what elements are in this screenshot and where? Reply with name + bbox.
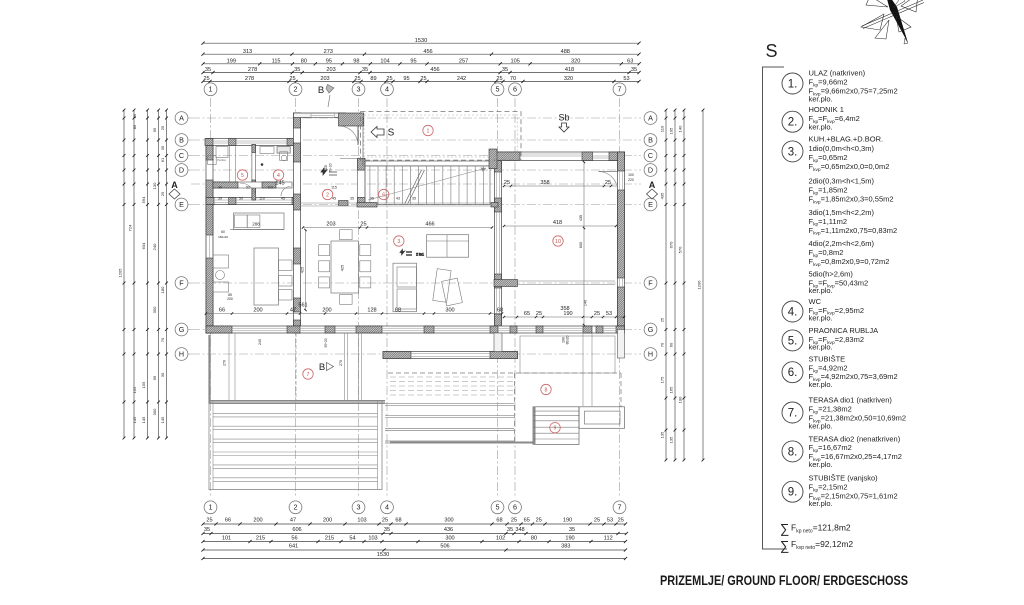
svg-text:600: 600 — [579, 242, 583, 248]
svg-text:9: 9 — [554, 426, 557, 432]
svg-text:86: 86 — [132, 124, 137, 129]
right dimension chains — [660, 109, 705, 462]
svg-text:140: 140 — [584, 300, 588, 306]
svg-text:54: 54 — [349, 536, 355, 542]
interior dim row A-A room 10 — [503, 180, 616, 187]
svg-text:E: E — [648, 200, 653, 209]
svg-text:35: 35 — [294, 67, 300, 73]
svg-text:ker.plo.: ker.plo. — [809, 314, 833, 323]
svg-text:3: 3 — [397, 239, 400, 245]
svg-text:35: 35 — [631, 67, 637, 73]
svg-text:200: 200 — [322, 307, 331, 313]
svg-text:2: 2 — [326, 193, 329, 199]
svg-text:5dio(h>2,6m): 5dio(h>2,6m) — [809, 270, 854, 279]
svg-text:25: 25 — [594, 311, 600, 317]
svg-text:F: F — [179, 278, 184, 287]
section marker A right — [647, 180, 658, 199]
svg-text:95: 95 — [326, 58, 332, 64]
svg-text:35: 35 — [362, 67, 368, 73]
svg-text:270: 270 — [223, 360, 227, 366]
top dimension chains — [201, 38, 640, 83]
svg-text:4: 4 — [277, 173, 280, 179]
svg-text:ker.plo.: ker.plo. — [809, 343, 833, 352]
left dimension chains — [118, 109, 168, 440]
svg-text:3dio(1,5m<h<2,2m): 3dio(1,5m<h<2,2m) — [809, 208, 875, 217]
svg-text:110: 110 — [660, 125, 665, 132]
electrical symbols — [321, 168, 424, 257]
room number 9 — [550, 423, 560, 433]
svg-text:B: B — [648, 135, 653, 144]
svg-text:25: 25 — [382, 518, 388, 524]
compass rose — [861, 0, 924, 44]
svg-text:1: 1 — [209, 85, 213, 94]
svg-text:103: 103 — [357, 518, 366, 524]
hall west wall (column 2) — [294, 113, 301, 333]
entry block wall — [339, 113, 364, 126]
kitchen island — [254, 248, 292, 305]
svg-text:418: 418 — [553, 220, 562, 226]
svg-text:165: 165 — [669, 386, 674, 393]
entrance arrow S — [371, 127, 395, 139]
svg-text:61: 61 — [160, 157, 165, 162]
hatch on E row at hall — [339, 201, 349, 206]
south wall row G — [206, 326, 625, 333]
svg-text:4.: 4. — [788, 307, 798, 319]
interior vertical dim dining — [300, 229, 345, 311]
svg-text:H: H — [648, 349, 653, 358]
svg-text:D: D — [648, 165, 653, 174]
svg-text:215: 215 — [325, 536, 334, 542]
grid bubbles top — [204, 83, 626, 96]
svg-text:53: 53 — [606, 311, 612, 317]
svg-text:288: 288 — [252, 221, 260, 226]
svg-text:320: 320 — [571, 58, 580, 64]
svg-text:436: 436 — [444, 527, 453, 533]
grid column lines 1-7 — [211, 98, 620, 498]
svg-text:86: 86 — [132, 113, 137, 118]
svg-text:6.: 6. — [788, 367, 798, 379]
svg-text:1: 1 — [209, 503, 213, 512]
svg-text:STUBIŠTE (vanjsko): STUBIŠTE (vanjsko) — [809, 474, 879, 483]
room number 4 — [273, 170, 283, 180]
svg-text:35: 35 — [507, 527, 513, 533]
section marker B bottom — [319, 362, 334, 373]
svg-text:300: 300 — [152, 408, 157, 415]
grid bubbles bottom — [204, 501, 626, 514]
svg-text:STUBIŠTE: STUBIŠTE — [809, 355, 846, 364]
wall between hall and stairs — [358, 159, 366, 206]
svg-text:300: 300 — [445, 307, 454, 313]
svg-text:S: S — [388, 128, 395, 139]
svg-text:348: 348 — [515, 527, 524, 533]
exterior wall west (left rooms block) — [206, 139, 213, 334]
svg-text:PRIZEMLJE/ GROUND FLOOR/ ERDGE: PRIZEMLJE/ GROUND FLOOR/ ERDGESCHOSS — [660, 572, 908, 588]
svg-text:6: 6 — [382, 193, 385, 199]
svg-text:68: 68 — [395, 518, 401, 524]
section marker B top — [318, 85, 334, 108]
svg-text:1530: 1530 — [377, 552, 389, 558]
svg-text:Fkvp neto=92,12m2: Fkvp neto=92,12m2 — [791, 539, 853, 551]
legend entry 5. — [782, 326, 878, 352]
svg-text:506: 506 — [440, 544, 449, 550]
svg-text:65: 65 — [524, 311, 530, 317]
svg-text:25: 25 — [160, 191, 165, 196]
svg-text:ULAZ (natkriven): ULAZ (natkriven) — [809, 69, 866, 78]
top wall of rooms 4/5 — [205, 139, 300, 146]
svg-text:A: A — [648, 113, 653, 122]
svg-text:278: 278 — [245, 76, 254, 82]
svg-text:4dio(2,2m<h<2,6m): 4dio(2,2m<h<2,6m) — [809, 239, 875, 248]
svg-text:2 3x1: 2 3x1 — [416, 253, 424, 257]
svg-text:9.: 9. — [788, 487, 798, 499]
svg-text:594: 594 — [141, 196, 146, 203]
divider wall rooms 5/4 — [252, 145, 256, 201]
svg-text:313: 313 — [243, 49, 252, 55]
svg-text:634: 634 — [141, 242, 146, 249]
svg-text:8: 8 — [545, 388, 548, 394]
svg-text:43: 43 — [396, 197, 400, 201]
svg-text:95: 95 — [152, 127, 157, 132]
svg-text:240: 240 — [258, 339, 262, 345]
svg-text:53: 53 — [623, 76, 629, 82]
svg-text:160x20: 160x20 — [218, 235, 228, 239]
svg-text:25: 25 — [660, 317, 665, 322]
svg-text:135: 135 — [669, 436, 674, 443]
svg-text:ker.plo.: ker.plo. — [809, 123, 833, 132]
svg-text:190: 190 — [565, 536, 574, 542]
svg-text:50: 50 — [239, 197, 243, 201]
svg-text:200: 200 — [253, 307, 262, 313]
svg-text:3: 3 — [357, 85, 361, 94]
svg-text:105: 105 — [510, 58, 519, 64]
svg-text:145: 145 — [160, 416, 165, 423]
window in hall top wall — [311, 113, 334, 117]
svg-text:278: 278 — [248, 67, 257, 73]
svg-text:257: 257 — [459, 58, 468, 64]
svg-text:B: B — [319, 362, 325, 373]
entry east line — [340, 117, 363, 166]
svg-text:KUH.+BLAG.+D.BOR.: KUH.+BLAG.+D.BOR. — [809, 135, 884, 144]
svg-text:220: 220 — [628, 178, 634, 182]
svg-text:100: 100 — [678, 396, 683, 403]
svg-text:Fkvp=0,65m2x0,0=0,0m2: Fkvp=0,65m2x0,0=0,0m2 — [809, 162, 890, 173]
east wall — [618, 152, 625, 330]
svg-text:104: 104 — [380, 58, 389, 64]
svg-text:155: 155 — [132, 386, 137, 393]
svg-text:47: 47 — [290, 518, 296, 524]
legend entry 6. — [782, 355, 898, 390]
svg-text:418: 418 — [565, 67, 574, 73]
svg-text:215: 215 — [256, 536, 265, 542]
svg-text:39: 39 — [218, 197, 222, 201]
svg-text:Fkp neto=121,8m2: Fkp neto=121,8m2 — [791, 523, 851, 535]
svg-text:350: 350 — [152, 306, 157, 313]
svg-text:25: 25 — [289, 76, 295, 82]
grid bubbles left — [175, 112, 191, 361]
wall below rooms 4/5 interior — [213, 182, 292, 188]
svg-text:E: E — [179, 200, 184, 209]
svg-text:45: 45 — [332, 197, 336, 201]
interior dimension row living — [302, 221, 493, 228]
svg-text:25: 25 — [618, 518, 624, 524]
svg-text:10: 10 — [555, 239, 561, 245]
svg-text:1.: 1. — [788, 79, 798, 91]
svg-text:25: 25 — [160, 125, 165, 130]
svg-text:2.: 2. — [788, 117, 798, 129]
svg-text:101: 101 — [222, 536, 231, 542]
legend entry 1. — [782, 69, 898, 104]
svg-text:80x20: 80x20 — [566, 335, 570, 344]
svg-text:25: 25 — [594, 518, 600, 524]
wall row E below rooms 4/5 — [206, 198, 300, 205]
svg-text:70: 70 — [160, 337, 165, 342]
svg-text:Sb: Sb — [558, 113, 569, 123]
section marker A left — [169, 180, 180, 199]
svg-text:7.: 7. — [788, 408, 798, 420]
svg-text:60: 60 — [221, 230, 225, 234]
svg-text:TERASA dio2 (nenatkriven): TERASA dio2 (nenatkriven) — [809, 434, 901, 443]
svg-text:C: C — [179, 151, 184, 160]
svg-text:199: 199 — [227, 58, 236, 64]
svg-text:4: 4 — [385, 85, 389, 94]
svg-text:60: 60 — [669, 342, 674, 347]
svg-text:115: 115 — [272, 58, 281, 64]
svg-text:110: 110 — [259, 197, 265, 201]
stair landing wall — [489, 149, 497, 169]
svg-text:3: 3 — [357, 503, 361, 512]
svg-text:425: 425 — [300, 266, 305, 273]
closet partition room 5 — [230, 146, 236, 187]
svg-text:5: 5 — [241, 173, 244, 179]
svg-text:35: 35 — [204, 527, 210, 533]
svg-text:A: A — [171, 180, 178, 190]
svg-text:102: 102 — [496, 536, 505, 542]
svg-text:100: 100 — [628, 173, 634, 177]
svg-text:35: 35 — [384, 527, 390, 533]
svg-text:1530: 1530 — [415, 38, 427, 44]
svg-text:35: 35 — [350, 197, 354, 201]
svg-text:96: 96 — [152, 375, 157, 380]
svg-text:95+20: 95+20 — [324, 338, 328, 347]
svg-text:7: 7 — [618, 85, 622, 94]
legend entry 4. — [782, 297, 864, 323]
svg-text:39: 39 — [218, 186, 222, 190]
legend entry 9. — [782, 474, 898, 508]
legend entry 3. — [782, 135, 897, 296]
svg-text:488: 488 — [561, 49, 570, 55]
svg-text:Fkvp=1,11m2x0,75=0,83m2: Fkvp=1,11m2x0,75=0,83m2 — [809, 226, 898, 237]
svg-text:ker.plo.: ker.plo. — [809, 460, 833, 469]
dining table — [319, 230, 371, 305]
svg-text:25: 25 — [354, 76, 360, 82]
room 10 west wall — [495, 161, 502, 327]
svg-text:ker.plo.: ker.plo. — [809, 380, 833, 389]
svg-text:45: 45 — [281, 197, 285, 201]
svg-text:25: 25 — [420, 76, 426, 82]
svg-text:1: 1 — [427, 129, 430, 135]
svg-text:95: 95 — [370, 197, 374, 201]
grid row lines A-H — [191, 118, 641, 354]
svg-text:203: 203 — [320, 76, 329, 82]
entry door leaf and arc — [340, 126, 358, 145]
room number 2 — [322, 189, 332, 199]
svg-text:1dio(0,0m<h<0,3m): 1dio(0,0m<h<0,3m) — [809, 144, 875, 153]
tv sideboard — [393, 263, 417, 312]
svg-text:H: H — [179, 349, 184, 358]
svg-text:70+20: 70+20 — [329, 163, 333, 172]
interior dim row above wall G right — [503, 306, 625, 318]
svg-text:200: 200 — [253, 518, 262, 524]
svg-text:4: 4 — [385, 503, 389, 512]
room number 7 — [303, 369, 313, 379]
svg-text:TERASA dio1 (natkriven): TERASA dio1 (natkriven) — [809, 396, 893, 405]
svg-text:70: 70 — [660, 342, 665, 347]
svg-text:103: 103 — [368, 536, 377, 542]
svg-text:300: 300 — [444, 518, 453, 524]
legend entry 7. — [782, 396, 906, 431]
svg-text:53: 53 — [607, 518, 613, 524]
svg-text:95: 95 — [410, 58, 416, 64]
svg-text:105: 105 — [669, 127, 674, 134]
svg-text:35: 35 — [569, 527, 575, 533]
svg-text:Fkvp=1,85m2x0,3=0,55m2: Fkvp=1,85m2x0,3=0,55m2 — [809, 195, 894, 206]
svg-text:561: 561 — [298, 303, 307, 309]
svg-text:PRAONICA RUBLJA: PRAONICA RUBLJA — [809, 326, 879, 335]
svg-text:5: 5 — [496, 85, 500, 94]
svg-text:65: 65 — [524, 518, 530, 524]
terrace dio2 room 8 dashed area — [385, 373, 621, 444]
svg-text:B: B — [179, 135, 184, 144]
svg-text:358: 358 — [540, 180, 549, 186]
svg-text:435: 435 — [660, 192, 665, 199]
svg-text:2: 2 — [294, 503, 298, 512]
covered terrace edge (thick gray L) — [209, 335, 386, 403]
svg-text:383: 383 — [561, 544, 570, 550]
sofa living room — [427, 235, 469, 258]
room number 10 — [553, 236, 563, 246]
svg-text:203: 203 — [326, 67, 335, 73]
svg-text:3.: 3. — [788, 146, 798, 158]
svg-text:570: 570 — [678, 246, 683, 253]
svg-text:30: 30 — [160, 372, 165, 377]
svg-text:35: 35 — [502, 67, 508, 73]
svg-text:89: 89 — [370, 76, 376, 82]
svg-text:D: D — [179, 165, 184, 174]
svg-text:25: 25 — [203, 76, 209, 82]
svg-text:128: 128 — [367, 307, 376, 313]
svg-text:80: 80 — [531, 536, 537, 542]
legend bracket — [763, 67, 788, 549]
external stairs room 9 — [533, 407, 579, 445]
svg-text:7: 7 — [307, 372, 310, 378]
misc small labels row hall — [217, 158, 416, 301]
svg-text:203: 203 — [326, 221, 335, 227]
svg-text:6: 6 — [513, 85, 517, 94]
svg-text:68: 68 — [496, 518, 502, 524]
svg-text:52: 52 — [246, 186, 250, 190]
svg-text:358: 358 — [560, 306, 569, 312]
svg-text:80: 80 — [301, 58, 307, 64]
svg-text:155: 155 — [141, 381, 146, 388]
legend sums — [780, 521, 853, 553]
svg-text:270: 270 — [339, 360, 343, 366]
svg-text:C: C — [648, 151, 653, 160]
svg-text:WC: WC — [809, 297, 822, 306]
svg-text:25: 25 — [605, 180, 611, 186]
terrace posts — [229, 333, 362, 400]
svg-text:641: 641 — [289, 544, 298, 550]
svg-text:115: 115 — [331, 186, 337, 190]
kitchen counter — [230, 213, 284, 230]
room number 5 — [237, 170, 247, 180]
svg-text:66: 66 — [225, 518, 231, 524]
misc small labels — [223, 163, 634, 366]
svg-text:S: S — [766, 41, 778, 61]
svg-text:200: 200 — [323, 518, 332, 524]
wall row H — [383, 352, 518, 359]
Sb marker with down arrow — [558, 113, 569, 133]
svg-text:456: 456 — [430, 67, 439, 73]
svg-text:25: 25 — [504, 180, 510, 186]
svg-text:66: 66 — [219, 307, 225, 313]
svg-text:435: 435 — [579, 215, 583, 221]
svg-text:ker.plo.: ker.plo. — [809, 286, 833, 295]
svg-text:135: 135 — [660, 431, 665, 438]
staircase room 6 — [365, 161, 490, 205]
svg-text:606: 606 — [292, 527, 301, 533]
svg-text:2dio(0,3m<h<1,5m): 2dio(0,3m<h<1,5m) — [809, 177, 875, 186]
svg-text:∑: ∑ — [780, 538, 789, 553]
svg-text:25: 25 — [360, 221, 366, 227]
room number 3 — [394, 236, 404, 246]
svg-text:145: 145 — [275, 181, 284, 187]
svg-text:1206: 1206 — [697, 280, 702, 290]
svg-text:242: 242 — [457, 76, 466, 82]
door arc room 10 top right — [599, 172, 618, 191]
west wing walls G-H — [494, 330, 625, 359]
wall row F stub — [494, 280, 615, 287]
svg-text:7: 7 — [618, 503, 622, 512]
svg-text:68: 68 — [497, 307, 503, 313]
svg-text:320: 320 — [564, 76, 573, 82]
svg-text:300: 300 — [445, 536, 454, 542]
svg-text:98: 98 — [353, 58, 359, 64]
svg-text:HODNIK 1: HODNIK 1 — [809, 105, 844, 114]
room number 6 — [379, 189, 389, 199]
door arc room 4 — [281, 187, 291, 197]
svg-text:466: 466 — [425, 221, 434, 227]
hall-living boundary line row E — [301, 203, 499, 208]
svg-text:145: 145 — [132, 416, 137, 423]
svg-text:175: 175 — [660, 376, 665, 383]
planter box — [579, 407, 625, 429]
svg-text:8.: 8. — [788, 446, 798, 458]
room number 1 — [423, 125, 433, 135]
svg-text:273: 273 — [324, 49, 333, 55]
legend entry 2. — [782, 105, 860, 132]
armchairs — [433, 269, 463, 306]
hall top wall — [294, 113, 346, 118]
svg-text:35: 35 — [205, 67, 211, 73]
svg-text:G: G — [648, 325, 654, 334]
laundry fixtures room 5 — [208, 147, 264, 166]
svg-text:25: 25 — [536, 518, 542, 524]
svg-text:130: 130 — [152, 182, 157, 189]
svg-text:25: 25 — [511, 518, 517, 524]
svg-text:56: 56 — [291, 536, 297, 542]
interior dim row above wall G left — [205, 307, 503, 314]
svg-text:145: 145 — [141, 416, 146, 423]
